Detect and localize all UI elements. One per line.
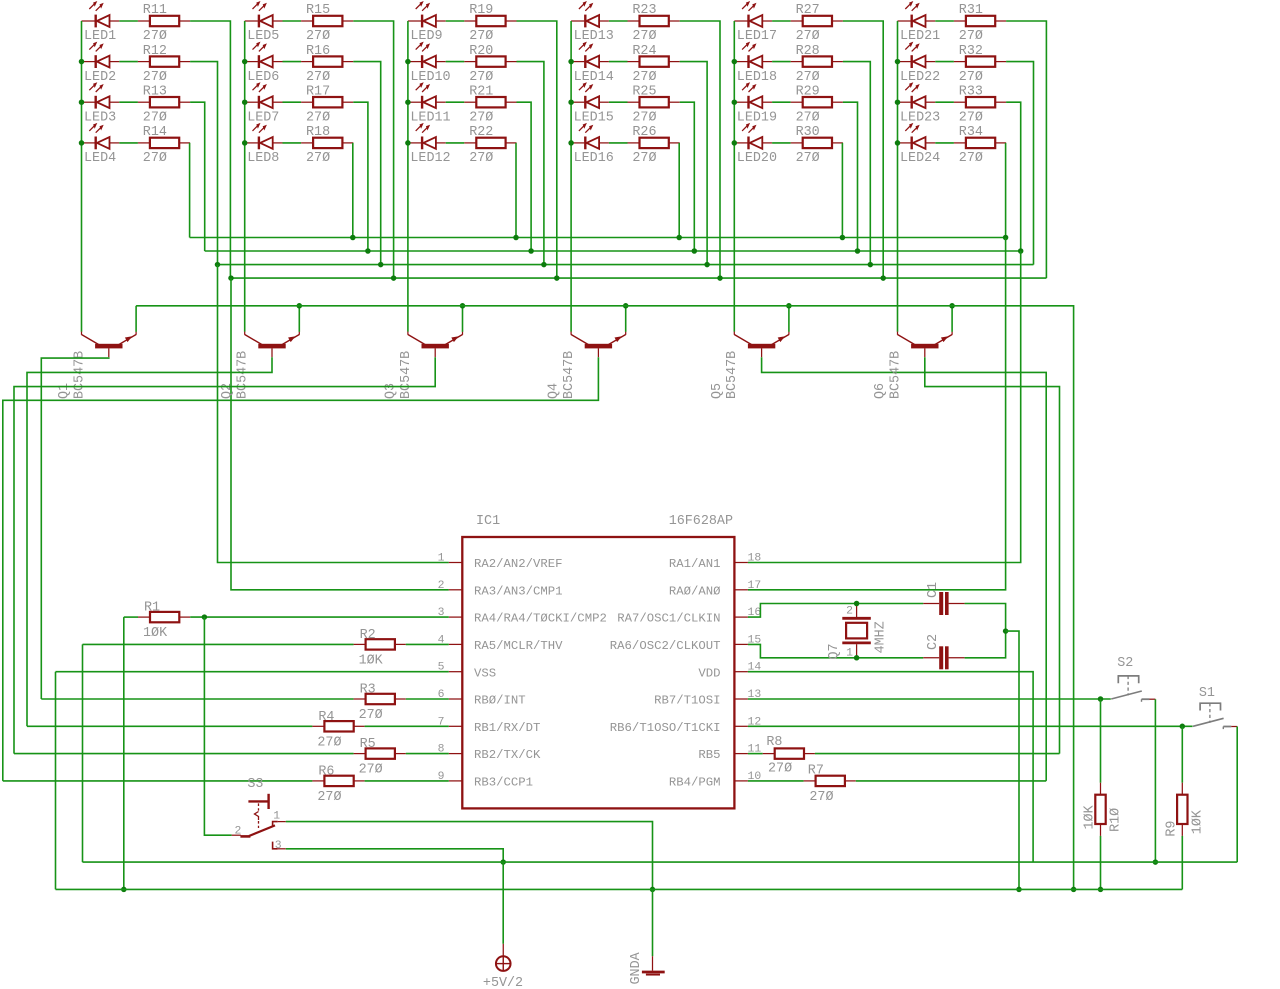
svg-text:RA7/OSC1/CLKIN: RA7/OSC1/CLKIN	[617, 612, 720, 626]
IC1 pin 3 RA4/RA4/T&#216;CKI/CMP2	[449, 616, 463, 618]
wire row2 bus to IC pin1	[218, 265, 449, 563]
resistor R3	[354, 694, 406, 704]
svg-text:27Ø: 27Ø	[796, 29, 820, 44]
resistor R19	[464, 16, 516, 26]
wire S1 to +5V rail	[1236, 727, 1238, 863]
resistor R5	[354, 748, 406, 758]
svg-text:27Ø: 27Ø	[796, 151, 820, 166]
wire R6 to IC pin9	[365, 780, 449, 782]
wire LED17 to R27	[772, 20, 791, 22]
resistor R2	[354, 639, 406, 649]
wire C2 right to node	[965, 631, 1006, 658]
transistor Q3 BC547B	[408, 332, 463, 358]
svg-text:LED17: LED17	[737, 29, 777, 44]
wire LED7 to R17	[283, 101, 302, 103]
junction row4 bus	[840, 235, 846, 241]
svg-text:Q6: Q6	[873, 383, 888, 399]
junction LED column 6	[895, 59, 901, 65]
resistor R20	[464, 56, 516, 66]
junction row2 bus	[541, 262, 547, 268]
svg-text:RB5: RB5	[698, 748, 720, 762]
svg-text:R15: R15	[306, 3, 330, 18]
svg-text:BC547B: BC547B	[725, 351, 740, 399]
junction LED column 2	[242, 59, 248, 65]
svg-text:1: 1	[846, 648, 853, 660]
resistor R23	[628, 16, 680, 26]
wire row4 bus	[190, 237, 1006, 239]
wire OSC1 pin16 to C1	[748, 604, 923, 618]
IC1 pin 10 RB4/PGM	[734, 780, 748, 782]
wire R29 to row bus	[843, 102, 858, 251]
LED LED6	[245, 42, 283, 68]
junction row1 bus	[717, 275, 723, 281]
wire LED11 to R21	[446, 101, 465, 103]
svg-text:LED22: LED22	[900, 70, 940, 85]
junction row2 bus to RA2 wire	[215, 262, 221, 268]
wire VDD pin14 to +5V rail	[748, 672, 1033, 862]
svg-text:R1Ø: R1Ø	[1109, 808, 1124, 832]
wire R16 to row bus	[353, 62, 380, 265]
svg-text:R30: R30	[796, 125, 820, 140]
junction LED column 1	[79, 140, 85, 146]
wire R26 to row bus	[678, 143, 680, 238]
wire R17 to row bus	[353, 102, 368, 251]
svg-text:27Ø: 27Ø	[469, 110, 493, 125]
junction row4 bus to RA0 wire	[1003, 235, 1009, 241]
IC1 pin 18 RA1/AN1	[734, 562, 748, 564]
svg-text:27Ø: 27Ø	[796, 110, 820, 125]
wire R11 to row bus	[190, 21, 230, 278]
junction row2 bus	[378, 262, 384, 268]
LED LED12	[408, 123, 446, 149]
junction LED column 3	[405, 59, 411, 65]
svg-text:27Ø: 27Ø	[143, 70, 167, 85]
svg-text:R24: R24	[632, 44, 656, 59]
svg-text:RAØ/ANØ: RAØ/ANØ	[669, 584, 721, 598]
wire LED12 to R22	[446, 142, 465, 144]
svg-text:LED7: LED7	[247, 110, 279, 125]
svg-text:R13: R13	[143, 84, 167, 99]
crystal Q7 4MHZ	[842, 604, 871, 658]
svg-text:LED16: LED16	[574, 151, 614, 166]
svg-text:RB1/RX/DT: RB1/RX/DT	[474, 721, 540, 735]
wire ground rail	[56, 888, 1183, 890]
svg-text:27Ø: 27Ø	[632, 29, 656, 44]
LED LED13	[571, 1, 609, 27]
svg-text:R29: R29	[796, 84, 820, 99]
junction crystal pin1	[854, 655, 860, 661]
wire RB7 pin13 to S2	[748, 698, 1111, 700]
wire R27 to row bus	[843, 21, 883, 278]
LED LED19	[734, 82, 772, 108]
resistor R10	[1095, 783, 1105, 836]
wire VSS pin5	[56, 671, 449, 673]
wire LED23 to R33	[935, 101, 954, 103]
wire S2 node to R10	[1100, 699, 1102, 783]
wire +5V rail	[83, 861, 1238, 863]
IC1 pin 16 RA7/OSC1/CLKIN	[734, 616, 748, 618]
LED LED17	[734, 1, 772, 27]
svg-text:R17: R17	[306, 84, 330, 99]
wire emitter bus to ground rail	[136, 306, 1074, 890]
svg-text:27Ø: 27Ø	[796, 70, 820, 85]
svg-text:27Ø: 27Ø	[143, 151, 167, 166]
wire R20 to row bus	[517, 62, 544, 265]
wire LED22 to R32	[935, 61, 954, 63]
wire LED1 to R11	[119, 20, 138, 22]
wire R25 to row bus	[680, 102, 695, 251]
LED LED14	[571, 42, 609, 68]
svg-text:27Ø: 27Ø	[317, 735, 341, 750]
wire R9 to ground rail	[1181, 836, 1183, 890]
svg-text:R9: R9	[1165, 821, 1180, 837]
svg-text:R20: R20	[469, 44, 493, 59]
wire R12 to row bus	[190, 62, 217, 265]
IC1 pin 7 RB1/RX/DT	[449, 725, 463, 727]
svg-text:R16: R16	[306, 44, 330, 59]
junction emitter bus	[949, 303, 955, 309]
wire RA4 node to S3 pin2	[204, 617, 231, 835]
LED LED4	[82, 123, 120, 149]
svg-text:R26: R26	[632, 125, 656, 140]
wire R1 to ground rail	[123, 617, 125, 889]
wire R18 to row bus	[352, 143, 354, 238]
wire R3 to IC pin6	[406, 698, 449, 700]
svg-text:LED19: LED19	[737, 110, 777, 125]
svg-text:R21: R21	[469, 84, 493, 99]
svg-text:LED4: LED4	[84, 151, 116, 166]
svg-text:IC1: IC1	[476, 514, 500, 529]
svg-text:LED2: LED2	[84, 70, 116, 85]
svg-text:1ØK: 1ØK	[143, 626, 168, 641]
svg-text:27Ø: 27Ø	[469, 29, 493, 44]
svg-text:S1: S1	[1199, 686, 1215, 701]
junction ground rail R10	[1098, 887, 1104, 893]
junction row1 bus	[391, 275, 397, 281]
LED LED11	[408, 82, 446, 108]
wire Q3 base line to R5	[14, 753, 354, 755]
LED LED10	[408, 42, 446, 68]
svg-text:RB7/T1OSI: RB7/T1OSI	[654, 694, 720, 708]
wire LED column 1 cathode	[81, 21, 83, 332]
svg-text:27Ø: 27Ø	[317, 790, 341, 805]
svg-text:2: 2	[438, 580, 445, 592]
svg-text:R2: R2	[360, 628, 376, 643]
capacitor C1	[923, 592, 964, 615]
junction LED column 5	[732, 99, 738, 105]
resistor R14	[138, 138, 190, 148]
svg-text:VDD: VDD	[698, 666, 720, 680]
svg-text:27Ø: 27Ø	[469, 70, 493, 85]
svg-text:RB6/T1OSO/T1CKI: RB6/T1OSO/T1CKI	[610, 721, 721, 735]
transistor Q1 BC547B	[82, 332, 137, 358]
svg-text:R3: R3	[360, 683, 376, 698]
svg-text:RBØ/INT: RBØ/INT	[474, 694, 526, 708]
transistor Q2 BC547B	[245, 332, 300, 358]
IC1 pin 13 RB7/T1OSI	[734, 698, 748, 700]
LED LED9	[408, 1, 446, 27]
wire LED24 to R34	[935, 142, 954, 144]
wire LED3 to R13	[119, 101, 138, 103]
junction row1 bus	[880, 275, 886, 281]
wire Q1 base to RB0	[41, 357, 109, 699]
wire C node to ground rail	[1006, 631, 1019, 889]
wire LED2 to R12	[119, 61, 138, 63]
wire Q5 base to RB4	[762, 357, 1047, 781]
junction LED column 4	[568, 99, 574, 105]
LED LED21	[898, 1, 936, 27]
wire OSC2 pin15 to C2	[748, 644, 923, 657]
ground GNDA symbol	[642, 956, 665, 974]
svg-text:LED6: LED6	[247, 70, 279, 85]
junction ground rail GNDA	[650, 887, 656, 893]
wire Q2 base to RB1	[27, 357, 272, 726]
wire LED9 to R19	[446, 20, 465, 22]
svg-text:R6: R6	[318, 764, 334, 779]
resistor R27	[791, 16, 843, 26]
resistor R33	[954, 97, 1006, 107]
svg-text:LED3: LED3	[84, 110, 116, 125]
resistor R22	[464, 138, 516, 148]
wire R33 to row bus	[1006, 102, 1021, 251]
resistor R34	[954, 138, 1006, 148]
svg-text:27Ø: 27Ø	[959, 110, 983, 125]
wire to +5V symbol	[502, 862, 504, 944]
resistor R21	[464, 97, 516, 107]
wire Q2 base line to R4	[27, 725, 312, 727]
wire S2 to +5V rail	[1154, 699, 1156, 862]
wire RB5 pin11 to R8	[748, 753, 763, 755]
IC1 pin 15 RA6/OSC2/CLKOUT	[734, 643, 748, 645]
wire row3 bus to IC pin18	[748, 251, 1021, 563]
svg-text:R8: R8	[766, 735, 782, 750]
resistor R31	[954, 16, 1006, 26]
svg-text:LED8: LED8	[247, 151, 279, 166]
wire row3 bus	[205, 250, 1021, 252]
wire Q3 base to RB2	[14, 357, 435, 753]
junction row3 bus	[365, 248, 371, 254]
svg-text:R1: R1	[144, 601, 160, 616]
LED LED18	[734, 42, 772, 68]
resistor R9	[1177, 783, 1187, 836]
wire R4 to IC pin7	[365, 725, 449, 727]
switch S1	[1193, 703, 1237, 729]
svg-text:RA4/RA4/TØCKI/CMP2: RA4/RA4/TØCKI/CMP2	[474, 612, 607, 626]
wire R22 to row bus	[515, 143, 517, 238]
wire R2 to +5V rail	[82, 644, 84, 862]
junction row3 bus	[855, 248, 861, 254]
svg-text:1ØK: 1ØK	[1083, 804, 1098, 829]
junction emitter bus	[623, 303, 629, 309]
svg-text:LED15: LED15	[574, 110, 614, 125]
junction C1 C2	[1003, 628, 1009, 634]
junction S1 R9	[1180, 724, 1186, 730]
svg-text:Q1: Q1	[57, 383, 72, 399]
wire RB6 pin12 to S1	[748, 725, 1193, 727]
IC1 pin 4 RA5/MCLR/THV	[449, 643, 463, 645]
svg-text:VSS: VSS	[474, 666, 496, 680]
wire C1 right to node	[965, 604, 1006, 632]
svg-text:18: 18	[748, 553, 762, 565]
wire S3 pin3 to +5V rail	[286, 849, 503, 862]
svg-text:27Ø: 27Ø	[143, 110, 167, 125]
resistor R25	[628, 97, 680, 107]
junction row2 bus	[868, 262, 874, 268]
svg-text:S3: S3	[247, 777, 263, 792]
wire Q1 emitter	[135, 306, 137, 332]
svg-text:LED23: LED23	[900, 110, 940, 125]
LED LED1	[82, 1, 120, 27]
svg-text:27Ø: 27Ø	[359, 763, 383, 778]
junction emitter bus	[297, 303, 303, 309]
wire R31 to row bus	[1006, 21, 1046, 278]
junction row3 bus to RA1 wire	[1018, 248, 1024, 254]
op-amp IC1 16F628AP body	[462, 537, 734, 808]
resistor R32	[954, 56, 1006, 66]
resistor R24	[628, 56, 680, 66]
transistor Q6 BC547B	[898, 332, 953, 358]
LED LED7	[245, 82, 283, 108]
wire R5 to IC pin8	[406, 753, 449, 755]
svg-text:27Ø: 27Ø	[359, 708, 383, 723]
resistor R12	[138, 56, 190, 66]
wire to GNDA symbol	[652, 889, 654, 956]
junction +5V rail S2	[1153, 859, 1159, 865]
resistor R7	[804, 776, 856, 786]
svg-text:LED13: LED13	[574, 29, 614, 44]
wire R15 to row bus	[353, 21, 393, 278]
svg-text:R19: R19	[469, 3, 493, 18]
wire Q6 emitter	[951, 306, 953, 332]
IC1 pin 9 RB3/CCP1	[449, 780, 463, 782]
svg-text:1ØK: 1ØK	[1191, 809, 1206, 834]
svg-text:LED21: LED21	[900, 29, 940, 44]
svg-text:LED14: LED14	[574, 70, 614, 85]
wire R30 to row bus	[841, 143, 843, 238]
LED LED15	[571, 82, 609, 108]
junction LED column 5	[732, 140, 738, 146]
resistor R15	[301, 16, 353, 26]
junction LED column 6	[895, 99, 901, 105]
wire LED15 to R25	[609, 101, 628, 103]
svg-text:LED9: LED9	[410, 29, 442, 44]
svg-text:R31: R31	[959, 3, 983, 18]
junction LED column 5	[732, 59, 738, 65]
junction LED column 3	[405, 140, 411, 146]
junction row1 bus	[554, 275, 560, 281]
resistor R26	[628, 138, 680, 148]
LED LED8	[245, 123, 283, 149]
IC1 pin 1 RA2/AN2/VREF	[449, 562, 463, 564]
svg-text:4MHZ: 4MHZ	[873, 621, 888, 653]
svg-text:C2: C2	[926, 634, 941, 650]
resistor R4	[312, 721, 364, 731]
svg-text:+5V/2: +5V/2	[483, 976, 523, 989]
svg-text:R12: R12	[143, 44, 167, 59]
svg-text:R23: R23	[632, 3, 656, 18]
wire R10 to ground rail	[1100, 836, 1102, 890]
wire LED column 3 cathode	[407, 21, 409, 332]
wire LED column 6 cathode	[897, 21, 899, 332]
wire R24 to row bus	[680, 62, 707, 265]
svg-text:27Ø: 27Ø	[306, 70, 330, 85]
LED LED22	[898, 42, 936, 68]
resistor R17	[301, 97, 353, 107]
wire LED14 to R24	[609, 61, 628, 63]
transistor Q5 BC547B	[734, 332, 789, 358]
svg-text:LED1: LED1	[84, 29, 116, 44]
wire R14 to row bus	[189, 143, 191, 238]
svg-text:2: 2	[846, 606, 853, 618]
svg-text:BC547B: BC547B	[236, 351, 251, 399]
wire R7 to Q5 base line	[856, 780, 1046, 782]
resistor R6	[312, 776, 364, 786]
junction row4 bus	[513, 235, 519, 241]
svg-text:1ØK: 1ØK	[359, 653, 384, 668]
junction crystal pin2	[854, 601, 860, 607]
svg-text:GNDA: GNDA	[629, 951, 644, 984]
svg-text:R11: R11	[143, 3, 167, 18]
LED LED2	[82, 42, 120, 68]
wire LED8 to R18	[283, 142, 302, 144]
resistor R1	[138, 612, 190, 622]
wire Q4 base to RB3	[3, 357, 599, 781]
junction +5V rail supply	[500, 859, 506, 865]
svg-text:LED18: LED18	[737, 70, 777, 85]
svg-text:27Ø: 27Ø	[306, 29, 330, 44]
svg-text:RA5/MCLR/THV: RA5/MCLR/THV	[474, 639, 563, 653]
IC1 pin 11 RB5	[734, 753, 748, 755]
wire R8 to Q6 base line	[815, 753, 1060, 755]
svg-text:Q7: Q7	[827, 643, 842, 659]
junction ground rail	[1071, 887, 1077, 893]
svg-text:16F628AP: 16F628AP	[669, 514, 733, 529]
svg-text:27Ø: 27Ø	[632, 70, 656, 85]
svg-text:R25: R25	[632, 84, 656, 99]
wire LED21 to R31	[935, 20, 954, 22]
junction RA4 node	[202, 614, 208, 620]
resistor R16	[301, 56, 353, 66]
resistor R29	[791, 97, 843, 107]
LED LED5	[245, 1, 283, 27]
wire LED16 to R26	[609, 142, 628, 144]
svg-text:R28: R28	[796, 44, 820, 59]
wire R13 to row bus	[190, 102, 205, 251]
wire R28 to row bus	[843, 62, 870, 265]
wire LED column 2 cathode	[244, 21, 246, 332]
IC1 pin 6 RB&#216;/INT	[449, 698, 463, 700]
resistor R30	[791, 138, 843, 148]
junction row4 bus	[676, 235, 682, 241]
wire LED column 4 cathode	[570, 21, 572, 332]
IC1 pin 17 RA&#216;/AN&#216;	[734, 589, 748, 591]
svg-text:LED11: LED11	[410, 110, 450, 125]
svg-text:27Ø: 27Ø	[632, 110, 656, 125]
wire row2 bus	[218, 264, 1034, 266]
svg-text:BC547B: BC547B	[562, 351, 577, 399]
resistor R18	[301, 138, 353, 148]
switch S3	[232, 794, 286, 849]
wire LED19 to R29	[772, 101, 791, 103]
svg-text:RB3/CCP1: RB3/CCP1	[474, 776, 533, 790]
svg-text:BC547B: BC547B	[888, 351, 903, 399]
junction ground rail C	[1016, 887, 1022, 893]
wire S3 pin1 to ground rail	[286, 822, 653, 890]
wire RB4 pin10 to R7	[748, 780, 804, 782]
resistor R8	[763, 748, 815, 758]
junction LED column 4	[568, 140, 574, 146]
LED LED23	[898, 82, 936, 108]
